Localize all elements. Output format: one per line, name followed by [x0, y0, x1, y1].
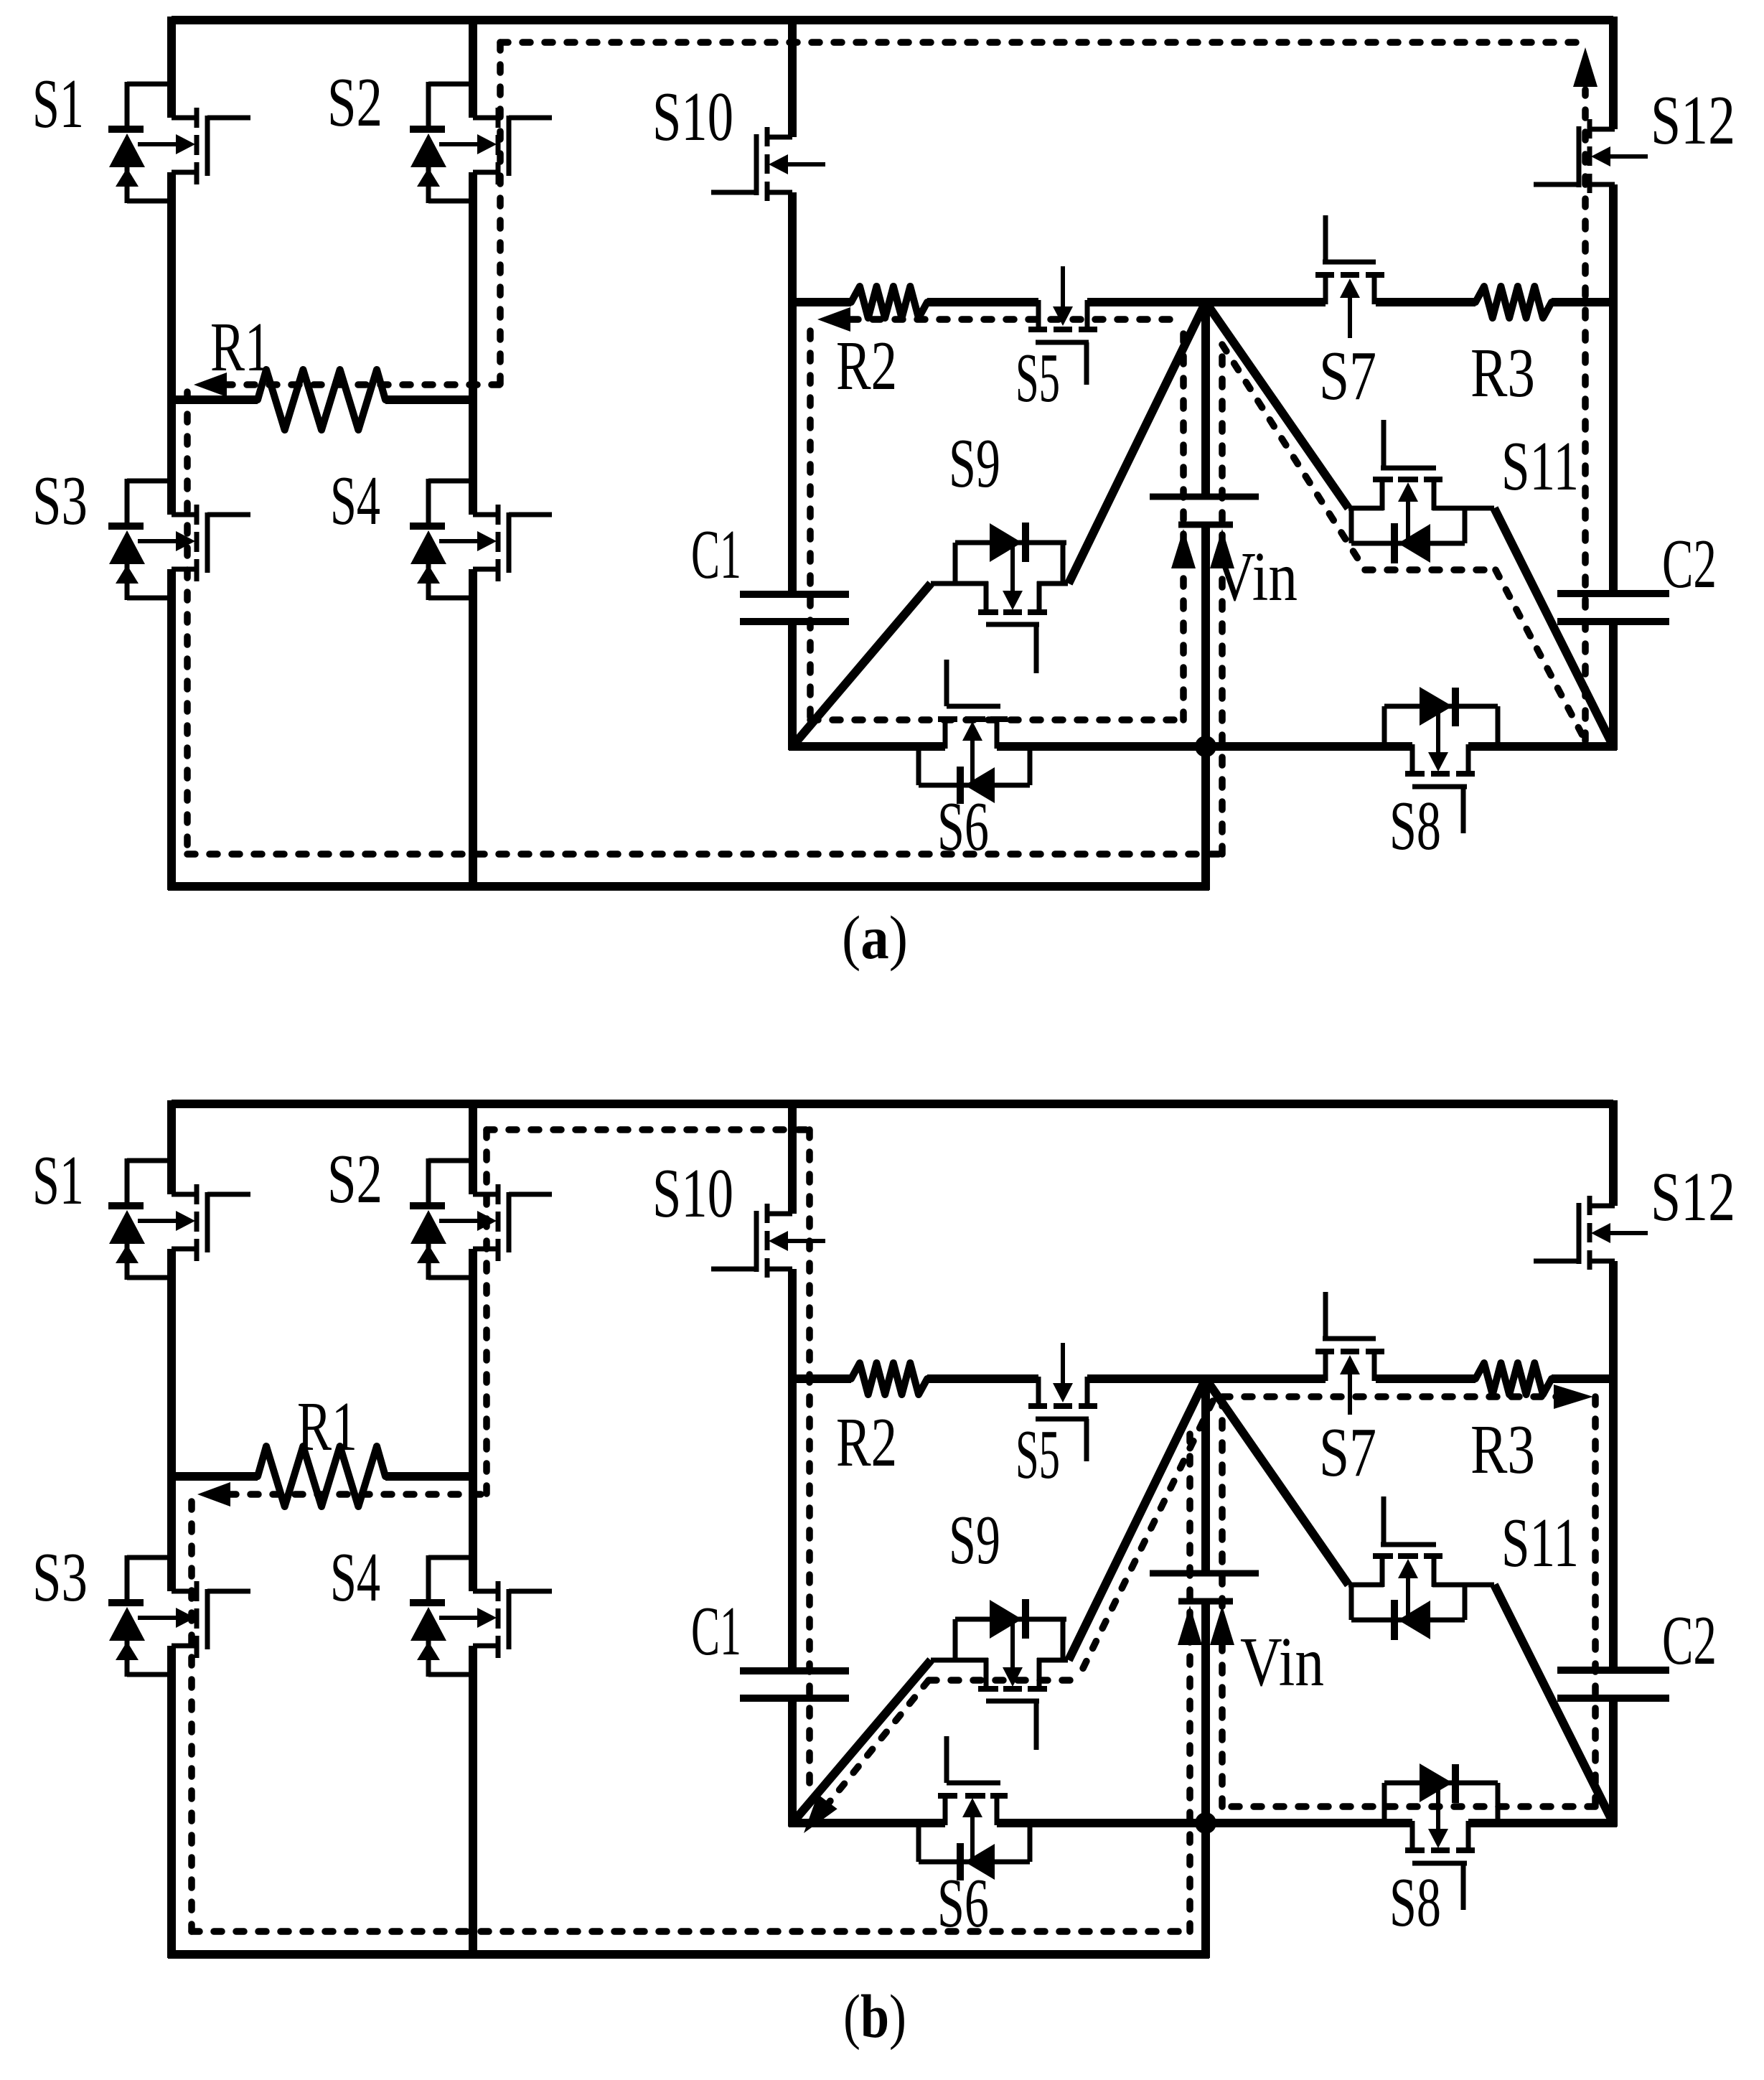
- current path arrow: fig b bottom-left (down-left): [804, 1794, 838, 1833]
- current path: fig b left loop diagonal upper: [1077, 1401, 1213, 1680]
- current path: fig a right loop diagonal upper: [1222, 345, 1365, 570]
- wire: fig (a) Vin bottom lead: [1201, 528, 1210, 890]
- label C1 fig (b): [691, 1593, 741, 1669]
- transistor S4 fig (b): [410, 1555, 552, 1677]
- current path: fig b S2 dashed vertical: [483, 1130, 490, 1494]
- caption (a): [842, 903, 908, 972]
- current path arrow: fig b R1 (left): [197, 1482, 230, 1507]
- label S6 fig (a): [937, 788, 989, 865]
- label R3 fig (a): [1470, 334, 1535, 411]
- wire: fig (a) left border upper: [167, 17, 176, 118]
- svg-text:S2: S2: [327, 64, 383, 141]
- wire: fig (b) R1 rail right: [385, 1472, 477, 1481]
- transistor S2 fig (b): [410, 1158, 552, 1280]
- current path: fig b S10/C1 dashed vertical: [806, 1130, 813, 1796]
- wire: fig (b) S2/S4 column lower: [469, 1646, 477, 1958]
- wire: fig (a) left border lower: [167, 569, 176, 890]
- label R2 fig (a): [836, 327, 897, 404]
- transistor S7 fig (b): [1315, 1292, 1384, 1415]
- current path: fig b C2 dashed vertical: [1592, 1397, 1599, 1807]
- current path arrow: fig a R2 (left): [817, 307, 850, 332]
- capacitor C1 fig (a): [740, 594, 849, 622]
- capacitor C1 fig (b): [740, 1671, 849, 1698]
- transistor S12 fig (a): [1534, 119, 1648, 193]
- transistor S8 fig (b): [1384, 1763, 1498, 1910]
- wire: fig (b) rail R2-S5: [927, 1374, 1038, 1383]
- svg-text:S8: S8: [1389, 787, 1441, 864]
- wire: fig (a) rail R2-S5: [927, 298, 1038, 306]
- current path: fig a S6 dashed horizontal: [810, 716, 1183, 723]
- svg-text:R2: R2: [836, 1404, 897, 1481]
- wire: fig (b) rail S10-R2: [789, 1374, 851, 1383]
- wire: fig (a) rail S7-R3: [1376, 298, 1476, 306]
- current path: fig a Vin left dashed vertical: [1180, 319, 1187, 720]
- svg-text:S9: S9: [949, 1502, 1000, 1578]
- wire: fig (b) right diagonal lower: [1494, 1585, 1613, 1823]
- wire: fig (a) mid rail C1-S6: [789, 742, 945, 751]
- label S7 fig (a): [1319, 337, 1376, 414]
- transistor S1 fig (a): [108, 82, 250, 203]
- current path arrow: fig a Vin right (up): [1210, 529, 1234, 568]
- current path: fig a R1 dashed: [225, 381, 500, 388]
- svg-text:S11: S11: [1501, 1504, 1579, 1581]
- transistor S5 fig (b): [1028, 1343, 1097, 1461]
- svg-text:S4: S4: [330, 462, 380, 539]
- wire: fig (b) S2/S4 column middle: [469, 1249, 477, 1591]
- wire: fig (b) right border lower: [1609, 1702, 1618, 1827]
- wire: fig (b) right border middle: [1609, 1261, 1618, 1667]
- wire: fig (a) left diagonal upper: [1069, 302, 1206, 584]
- transistor S11 fig (b): [1348, 1496, 1494, 1640]
- wire: fig (a) C1 bottom to corner: [788, 625, 797, 750]
- current path arrow: fig a Vin left (up): [1171, 529, 1196, 568]
- wire: fig (a) mid rail S8-C2: [1468, 742, 1617, 751]
- wire: fig (b) right diagonal upper: [1206, 1379, 1348, 1585]
- wire: fig (b) rail R3-right: [1552, 1374, 1617, 1383]
- wire: fig (a) left diagonal lower: [792, 584, 931, 746]
- wire: fig (a) right border middle: [1609, 184, 1618, 590]
- label S8 fig (a): [1389, 787, 1441, 864]
- wire: fig (a) mid rail S6-S8: [997, 742, 1412, 751]
- label S5 fig (a): [1015, 339, 1060, 416]
- current path: fig a Vin right dashed vertical: [1219, 345, 1226, 854]
- wire: fig (b) rail S7-R3: [1376, 1374, 1476, 1383]
- svg-text:Vin: Vin: [1240, 1624, 1324, 1700]
- label S5 fig (b): [1015, 1416, 1060, 1493]
- resistor R3 fig (b): [1476, 1363, 1552, 1395]
- wire: fig (a) right border lower: [1609, 625, 1618, 750]
- wire: fig (a) rail R3-right: [1552, 298, 1617, 306]
- current path arrow: fig b R3 (right): [1554, 1385, 1593, 1409]
- label S8 fig (b): [1389, 1864, 1441, 1941]
- transistor S12 fig (b): [1534, 1196, 1648, 1270]
- current path: fig b top dashed: [487, 1126, 810, 1133]
- current path arrow: fig b Vin left (up): [1178, 1606, 1202, 1645]
- transistor S9 fig (a): [931, 523, 1068, 673]
- resistor R3 fig (a): [1476, 286, 1552, 318]
- wire: fig (a) R1 rail left: [168, 395, 258, 404]
- wire: fig (a) rail S5-S7: [1087, 298, 1326, 306]
- transistor S10 fig (a): [711, 127, 825, 201]
- wire: fig (a) right diagonal lower: [1494, 508, 1613, 746]
- current path arrow: fig a S12 (up): [1573, 47, 1598, 87]
- svg-text:S1: S1: [32, 65, 84, 142]
- svg-text:S4: S4: [330, 1539, 380, 1616]
- label S3 fig (a): [32, 462, 88, 539]
- wire: fig (a) right diagonal upper: [1206, 302, 1348, 508]
- current path: fig b Vin right dashed vertical: [1219, 1397, 1226, 1807]
- svg-text:S5: S5: [1015, 339, 1060, 416]
- capacitor C2 fig (b): [1557, 1670, 1669, 1698]
- wire: fig (b) Vin bottom lead: [1201, 1604, 1210, 1958]
- label S4 fig (a): [330, 462, 380, 539]
- transistor S5 fig (a): [1028, 266, 1097, 385]
- transistor S3 fig (b): [108, 1555, 250, 1677]
- label S12 fig (b): [1651, 1158, 1735, 1235]
- svg-text:S11: S11: [1501, 428, 1579, 505]
- svg-text:S3: S3: [32, 462, 88, 539]
- wire: fig (b) mid rail S8-C2: [1468, 1819, 1617, 1827]
- current path: fig b S8 dashed horizontal: [1222, 1803, 1595, 1810]
- svg-text:C2: C2: [1662, 525, 1717, 602]
- current path: fig a R2/S5 dashed: [850, 316, 1183, 323]
- transistor S10 fig (b): [711, 1204, 825, 1278]
- svg-text:S10: S10: [652, 78, 733, 155]
- wire: fig (a) S2/S4 column middle: [469, 172, 477, 515]
- resistor R2 fig (b): [851, 1363, 927, 1395]
- label S6 fig (b): [937, 1865, 989, 1941]
- current path: fig b bottom dashed: [192, 1928, 1190, 1935]
- label S3 fig (b): [32, 1539, 88, 1616]
- svg-text:(b): (b): [843, 1982, 906, 2051]
- voltage source Vin fig (a): [1150, 497, 1259, 525]
- label S4 fig (b): [330, 1539, 380, 1616]
- label S7 fig (b): [1319, 1414, 1376, 1491]
- current path arrow: fig b Vin right (up): [1210, 1606, 1234, 1645]
- resistor R1 fig (a): [258, 370, 385, 430]
- wire: fig (a) right border upper: [1609, 17, 1618, 129]
- label S9 fig (b): [949, 1502, 1000, 1578]
- label C2 fig (a): [1662, 525, 1717, 602]
- voltage source Vin fig (b): [1150, 1573, 1259, 1601]
- label Vin fig (a): [1214, 538, 1298, 615]
- wire: fig (a) S2/S4 column lower: [469, 569, 477, 890]
- capacitor C2 fig (a): [1557, 594, 1669, 622]
- current path: fig a S3 dashed vertical: [184, 392, 191, 854]
- transistor S7 fig (a): [1315, 215, 1384, 338]
- wire: fig (b) S2/S4 column upper: [469, 1104, 477, 1194]
- transistor S3 fig (a): [108, 479, 250, 600]
- svg-text:S10: S10: [652, 1155, 733, 1232]
- label R3 fig (b): [1470, 1411, 1535, 1488]
- wire: fig (a) left border middle: [167, 172, 176, 515]
- svg-text:C1: C1: [691, 1593, 741, 1669]
- svg-text:S12: S12: [1651, 82, 1735, 159]
- current path: fig a S11 dashed horizontal: [1365, 566, 1496, 573]
- svg-text:S1: S1: [32, 1142, 84, 1219]
- wire: fig (b) left border middle: [167, 1249, 176, 1591]
- wire: fig (a) bottom rail: [168, 882, 1209, 891]
- label S11 fig (b): [1501, 1504, 1579, 1581]
- svg-text:R2: R2: [836, 327, 897, 404]
- label S2 fig (a): [327, 64, 383, 141]
- transistor S9 fig (b): [931, 1599, 1068, 1750]
- wire: fig (b) left diagonal lower: [792, 1660, 931, 1823]
- label C2 fig (b): [1662, 1602, 1717, 1679]
- svg-text:C2: C2: [1662, 1602, 1717, 1679]
- label S9 fig (a): [949, 425, 1000, 502]
- svg-text:R1: R1: [297, 1388, 357, 1465]
- resistor R1 fig (b): [258, 1446, 385, 1507]
- transistor S1 fig (b): [108, 1158, 250, 1280]
- svg-text:S5: S5: [1015, 1416, 1060, 1493]
- wire: fig (b) rail S5-S7: [1087, 1374, 1326, 1383]
- wire: fig (a) S10 drain: [788, 20, 797, 137]
- svg-text:C1: C1: [691, 516, 741, 593]
- current path: fig b S7/R3 dashed: [1222, 1393, 1561, 1400]
- svg-text:S8: S8: [1389, 1864, 1441, 1941]
- wire: fig (b) top border: [172, 1100, 1613, 1108]
- label S1 fig (b): [32, 1142, 84, 1219]
- label S10 fig (a): [652, 78, 733, 155]
- node: fig (b) junction dot: [1195, 1812, 1216, 1834]
- label Vin fig (b): [1240, 1624, 1324, 1700]
- svg-text:R3: R3: [1470, 334, 1535, 411]
- wire: fig (b) left border lower: [167, 1646, 176, 1958]
- wire: fig (b) mid rail S6-S8: [997, 1819, 1412, 1827]
- current path: fig b S3 dashed vertical: [188, 1502, 195, 1931]
- current path: fig a bottom dashed: [187, 851, 1222, 858]
- wire: fig (b) R1 rail left: [168, 1472, 258, 1481]
- transistor S4 fig (a): [410, 479, 552, 600]
- wire: fig (b) S10 source to C1: [788, 1269, 797, 1667]
- transistor S8 fig (a): [1384, 687, 1498, 833]
- wire: fig (b) right border upper: [1609, 1100, 1618, 1206]
- caption (b): [843, 1982, 906, 2051]
- resistor R2 fig (a): [851, 286, 927, 318]
- label R2 fig (b): [836, 1404, 897, 1481]
- current path: fig b Vin left dashed vertical: [1186, 1428, 1193, 1931]
- svg-text:S9: S9: [949, 425, 1000, 502]
- transistor S6 fig (a): [919, 660, 1030, 804]
- wire: fig (a) S2/S4 column upper: [469, 20, 477, 118]
- wire: fig (a) R1 rail right: [385, 395, 477, 404]
- transistor S6 fig (b): [919, 1736, 1030, 1880]
- current path: fig b R1 dashed: [228, 1491, 487, 1498]
- label S1 fig (a): [32, 65, 84, 142]
- label C1 fig (a): [691, 516, 741, 593]
- label S2 fig (b): [327, 1140, 383, 1217]
- svg-text:S7: S7: [1319, 1414, 1376, 1491]
- svg-text:(a): (a): [842, 903, 908, 972]
- wire: fig (b) S10 drain: [788, 1104, 797, 1214]
- svg-text:S12: S12: [1651, 1158, 1735, 1235]
- transistor S2 fig (a): [410, 82, 552, 203]
- svg-text:S2: S2: [327, 1140, 383, 1217]
- current path: fig b S9 dashed horizontal: [929, 1677, 1077, 1684]
- wire: fig (b) Vin top lead: [1201, 1379, 1210, 1570]
- current path: fig a top dashed: [500, 39, 1590, 46]
- transistor S11 fig (a): [1348, 420, 1494, 563]
- node: fig (a) junction dot: [1195, 736, 1216, 757]
- wire: fig (a) rail S10-R2: [789, 298, 851, 306]
- wire: fig (a) top border: [172, 16, 1613, 24]
- wire: fig (b) bottom rail: [168, 1950, 1209, 1959]
- current path: fig a S2 dashed vertical: [497, 42, 504, 385]
- wire: fig (a) Vin top lead: [1201, 302, 1210, 494]
- current path: fig a C1 dashed vertical: [807, 331, 814, 720]
- label R1 fig (b): [297, 1388, 357, 1465]
- current path: fig b left loop diagonal lower: [818, 1680, 929, 1816]
- svg-text:S3: S3: [32, 1539, 88, 1616]
- svg-text:S7: S7: [1319, 337, 1376, 414]
- label R1 fig (a): [210, 309, 271, 385]
- current path arrow: fig a R1 (left): [194, 373, 227, 397]
- wire: fig (b) C1 bottom to corner: [788, 1702, 797, 1827]
- label S12 fig (a): [1651, 82, 1735, 159]
- current path: fig a C2/S12 dashed vertical: [1582, 90, 1589, 741]
- label S10 fig (b): [652, 1155, 733, 1232]
- label S11 fig (a): [1501, 428, 1579, 505]
- wire: fig (b) left diagonal upper: [1069, 1379, 1206, 1660]
- current path: fig a right loop diagonal lower: [1496, 570, 1585, 741]
- wire: fig (a) S10 source to C1: [788, 192, 797, 591]
- wire: fig (b) mid rail C1-S6: [789, 1819, 945, 1827]
- wire: fig (b) left border upper: [167, 1100, 176, 1194]
- svg-text:R1: R1: [210, 309, 271, 385]
- svg-text:R3: R3: [1470, 1411, 1535, 1488]
